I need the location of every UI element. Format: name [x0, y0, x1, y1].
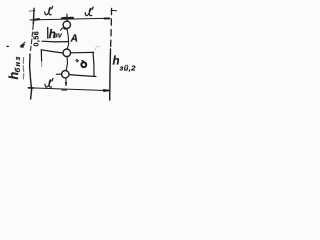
svg-text:зй,2: зй,2	[120, 64, 137, 73]
svg-text:h: h	[113, 55, 120, 67]
svg-text:бнз: бнз	[13, 55, 22, 72]
svg-text:0,56: 0,56	[33, 31, 40, 47]
svg-text:A: A	[70, 33, 78, 44]
svg-text:': '	[5, 45, 15, 47]
svg-text:зv: зv	[54, 33, 63, 40]
